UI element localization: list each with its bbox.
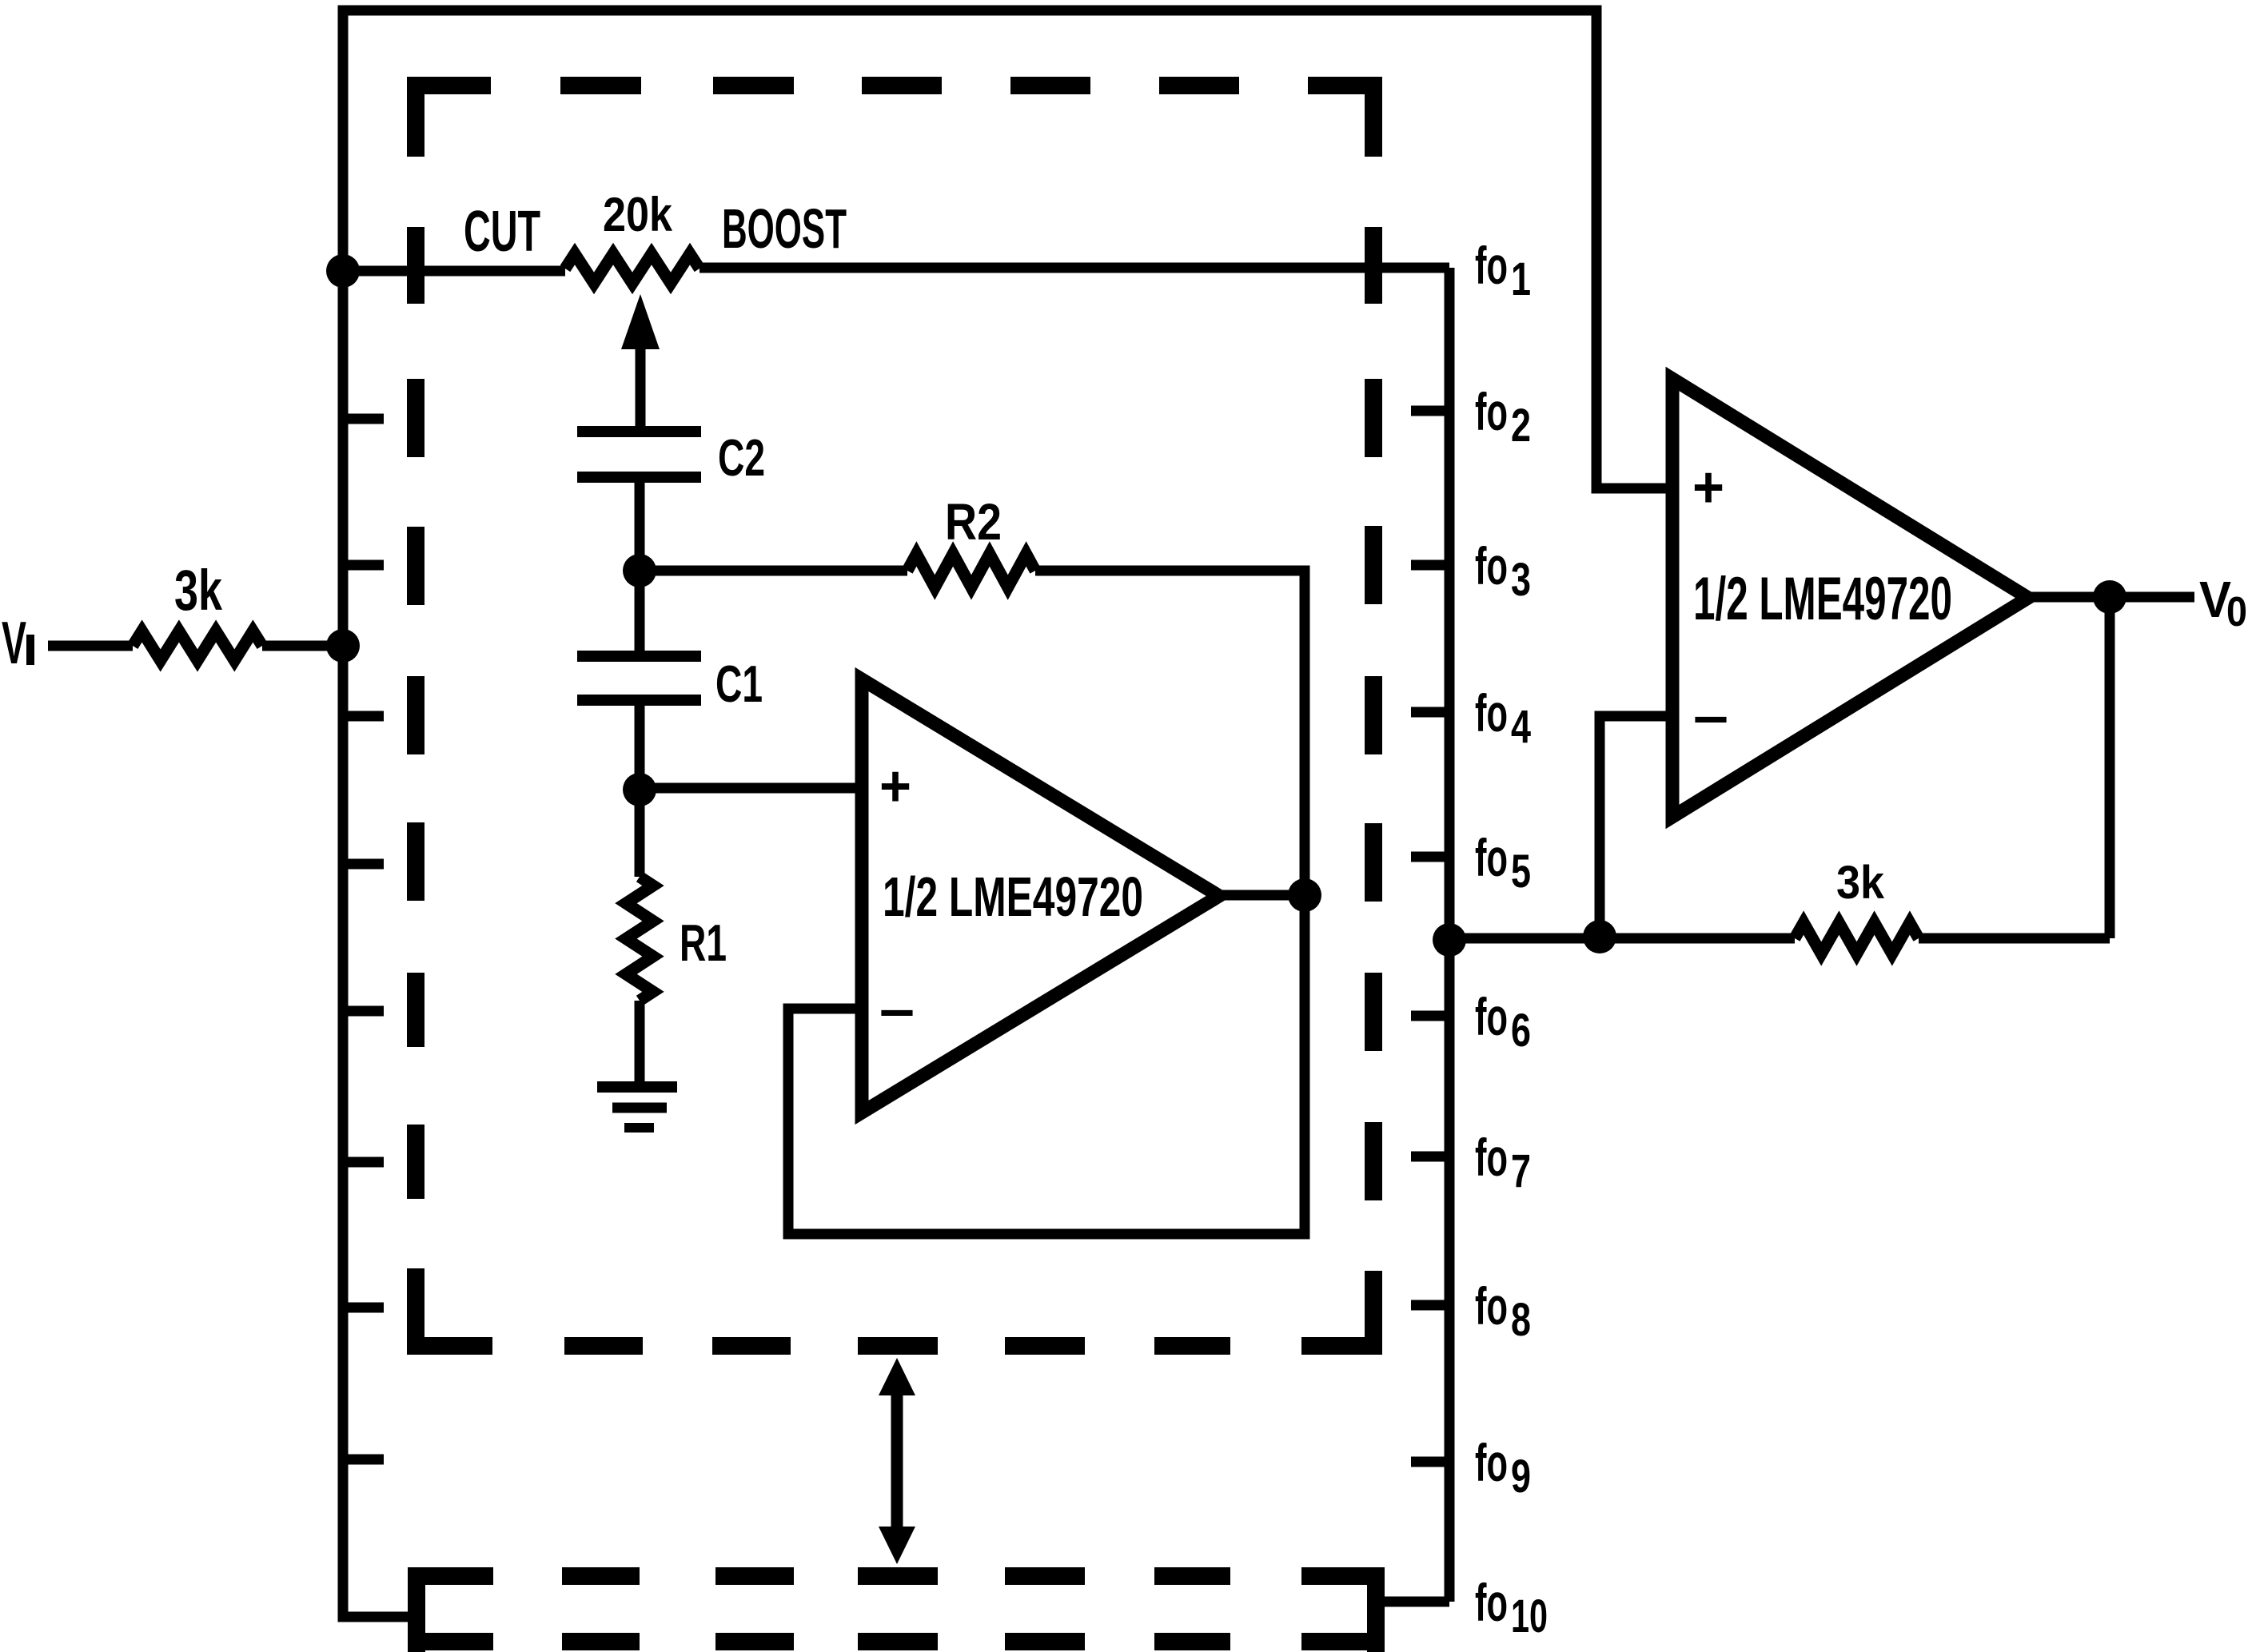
svg-text:1/2 LME49720: 1/2 LME49720 xyxy=(883,866,1143,928)
svg-text:R1: R1 xyxy=(680,914,727,972)
wire: R2 to op-amp U1A output node xyxy=(1035,571,1305,895)
wire: fo bus tick xyxy=(1411,406,1449,416)
wire: BOOST wire from pot to fo bus xyxy=(700,263,1449,273)
svg-text:fo: fo xyxy=(1475,382,1508,441)
svg-text:fo: fo xyxy=(1475,1276,1508,1336)
dashed equalizer section box: left edge xyxy=(407,77,424,1355)
svg-text:fo: fo xyxy=(1475,987,1508,1046)
junction dot: input node xyxy=(326,629,360,663)
svg-text:+: + xyxy=(1692,456,1724,519)
resistor R2 xyxy=(907,554,1035,587)
wire: input bus stub xyxy=(343,711,384,722)
wire: V_I input lead xyxy=(48,641,133,651)
wire: R1 to ground xyxy=(635,1001,645,1087)
svg-text:fo: fo xyxy=(1475,683,1508,742)
wire: input bus stub xyxy=(343,1157,384,1168)
junction dot: node B (C1/R1/+) xyxy=(623,773,656,806)
wire: input bus stub xyxy=(343,1455,384,1465)
svg-text:6: 6 xyxy=(1511,1005,1531,1057)
svg-text:–: – xyxy=(879,977,915,1041)
pot wiper arrowhead xyxy=(621,294,660,349)
junction dot: U1A output node xyxy=(1288,878,1321,912)
svg-text:1: 1 xyxy=(1511,253,1531,305)
wire: input bus stub xyxy=(343,1303,384,1313)
svg-text:3: 3 xyxy=(1511,554,1531,606)
resistor R1 xyxy=(626,877,653,1001)
dashed equalizer section box: bottom edge xyxy=(407,1337,1382,1355)
wire: C2 to node A xyxy=(635,477,645,571)
svg-text:fo: fo xyxy=(1475,1128,1508,1187)
wire: fo10 connection to repeated section xyxy=(1384,1597,1449,1607)
wire: 3k to input bus xyxy=(262,641,343,651)
svg-text:–: – xyxy=(1693,684,1728,748)
op-amp U1A (1/2 LME49720) xyxy=(862,679,1219,1113)
svg-text:20k: 20k xyxy=(603,188,673,241)
junction dot: summing bus tap xyxy=(1433,923,1466,957)
dashed equalizer section box: top edge xyxy=(407,77,1382,94)
resistor 3k (feedback) xyxy=(1795,923,1919,954)
svg-text:3k: 3k xyxy=(174,559,222,623)
junction dot: V_O node xyxy=(2093,580,2126,614)
svg-text:V: V xyxy=(2,609,26,676)
svg-text:10: 10 xyxy=(1511,1590,1548,1642)
svg-text:1/2 LME49720: 1/2 LME49720 xyxy=(1693,565,1952,633)
svg-text:R2: R2 xyxy=(945,493,1002,551)
svg-text:+: + xyxy=(879,754,911,818)
wire: outer loop (input bus, top feed, op-amp U1B + feed) xyxy=(343,10,1672,1617)
wire: fo summing bus xyxy=(1445,268,1455,1602)
wire: U1A feedback loop to - input xyxy=(788,895,1305,1234)
svg-text:7: 7 xyxy=(1511,1145,1531,1197)
wire: node A to R2 xyxy=(640,566,907,576)
wire: fo bus tick xyxy=(1411,1152,1449,1162)
wire: node C up to U1B - input xyxy=(1600,716,1672,938)
wire: summing bus to U1B - network xyxy=(1449,933,1795,944)
wire: U1A output xyxy=(1215,890,1305,901)
pot wiper arrow shaft xyxy=(636,336,646,432)
repeated section dashed row (upper) xyxy=(408,1567,1385,1585)
repeat arrow head (up) xyxy=(879,1358,915,1395)
wire: node B to op-amp U1A + input xyxy=(640,783,862,794)
wire: fo bus tick xyxy=(1411,707,1449,718)
wire: C1 top lead xyxy=(635,571,645,651)
repeated section right bracket xyxy=(1367,1567,1385,1652)
wire: fo bus tick xyxy=(1411,560,1449,571)
junction dot: node C (U1B - / 3k) xyxy=(1583,920,1616,953)
svg-text:9: 9 xyxy=(1511,1451,1531,1503)
junction dot: node A (C2/C1/R2) xyxy=(623,554,656,587)
resistor 3k (input) xyxy=(133,631,262,661)
svg-text:fo: fo xyxy=(1475,828,1508,887)
repeat arrow head (down) xyxy=(879,1527,915,1564)
svg-text:5: 5 xyxy=(1511,846,1531,898)
op-amp U1B (1/2 LME49720) xyxy=(1672,379,2028,817)
wire: input bus stub xyxy=(343,560,384,571)
wire: 3k feedback to output node xyxy=(1919,933,2110,944)
wire: V_O feedback down to 3k xyxy=(2105,597,2115,938)
wire: C1 to node B xyxy=(635,700,645,788)
wire: input bus stub xyxy=(343,859,384,870)
potentiometer 20k xyxy=(565,254,700,284)
svg-text:2: 2 xyxy=(1511,400,1531,452)
svg-text:C1: C1 xyxy=(715,655,763,713)
svg-text:4: 4 xyxy=(1511,701,1531,753)
wire: input bus stub xyxy=(343,414,384,424)
svg-text:fo: fo xyxy=(1475,1573,1508,1632)
svg-text:0: 0 xyxy=(2226,589,2247,635)
junction dot: CUT node xyxy=(326,254,360,288)
wire: fo bus tick xyxy=(1411,852,1449,862)
repeat indicator double arrow shaft xyxy=(891,1387,903,1535)
wire: input bus stub xyxy=(343,1006,384,1017)
svg-text:fo: fo xyxy=(1475,1433,1508,1492)
repeated section left bracket xyxy=(408,1567,425,1652)
wire: R1 top lead xyxy=(635,788,645,877)
dashed equalizer section box: right edge xyxy=(1365,77,1382,1355)
repeated section dashed row (lower) xyxy=(408,1633,1385,1650)
svg-text:fo: fo xyxy=(1475,536,1508,595)
svg-text:C2: C2 xyxy=(718,428,765,487)
svg-text:CUT: CUT xyxy=(464,200,540,264)
svg-text:3k: 3k xyxy=(1836,857,1885,909)
wire: fo bus tick xyxy=(1411,1011,1449,1021)
svg-text:fo: fo xyxy=(1475,236,1508,295)
wire: fo bus tick xyxy=(1411,1300,1449,1311)
capacitor C1 xyxy=(577,656,701,700)
ground xyxy=(597,1081,677,1093)
svg-text:BOOST: BOOST xyxy=(722,197,847,260)
wire: CUT wire from input bus to pot xyxy=(343,266,565,277)
svg-text:8: 8 xyxy=(1511,1294,1531,1346)
wire: fo bus tick xyxy=(1411,1457,1449,1467)
capacitor C2 xyxy=(577,432,701,477)
wire: U1B output to V_O xyxy=(2024,592,2194,603)
